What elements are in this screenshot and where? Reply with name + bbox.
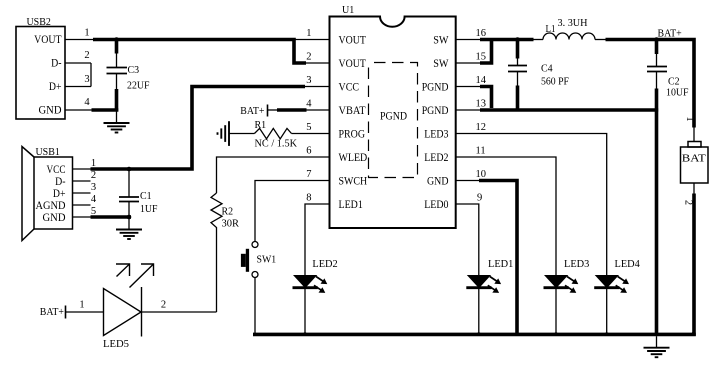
svg-text:6: 6 — [306, 146, 311, 157]
svg-text:GND: GND — [43, 212, 66, 224]
capacitor C4 — [508, 65, 527, 67]
svg-text:L1: L1 — [546, 24, 556, 35]
svg-text:1: 1 — [79, 300, 84, 311]
svg-text:2: 2 — [161, 300, 166, 311]
capacitor C2 — [647, 66, 667, 68]
svg-text:2: 2 — [683, 200, 694, 205]
wire C4 top thin — [517, 59, 519, 66]
resistor R1 — [254, 128, 291, 138]
LED5 light arrow 1 head — [116, 264, 130, 276]
USB1 pin 2 stub — [73, 180, 91, 182]
USB2 pin 3 stub — [65, 86, 91, 88]
svg-text:2: 2 — [84, 50, 89, 61]
svg-text:1: 1 — [306, 28, 311, 39]
svg-text:4: 4 — [306, 99, 312, 110]
LED5 cathode bar — [141, 287, 143, 337]
wire C2 top thin — [656, 54, 658, 67]
BAT+ terminal bar at LED5 — [65, 306, 67, 319]
svg-text:USB2: USB2 — [27, 16, 51, 28]
svg-text:BAT+: BAT+ — [658, 28, 682, 40]
svg-text:LED1: LED1 — [488, 258, 513, 270]
wire R1 to U1 pin 5 — [292, 133, 331, 135]
wire into U1 pin 3 — [305, 86, 330, 88]
svg-text:C4: C4 — [541, 63, 553, 75]
connector USB1 flap — [22, 147, 34, 241]
svg-text:LED3: LED3 — [564, 258, 590, 270]
wire C2 bottom thin — [656, 72, 658, 89]
svg-text:3. 3UH: 3. 3UH — [558, 17, 588, 29]
svg-text:16: 16 — [476, 28, 487, 39]
junction dot C4 top — [515, 37, 520, 42]
wire into U1 pin 2 — [306, 62, 330, 64]
svg-text:22UF: 22UF — [127, 80, 150, 92]
svg-text:5: 5 — [306, 122, 311, 133]
connector USB1 body — [34, 157, 73, 229]
svg-text:PGND: PGND — [422, 105, 449, 117]
svg-text:4: 4 — [91, 194, 97, 205]
ground below C3 — [104, 112, 130, 133]
svg-text:D-: D- — [55, 176, 66, 188]
svg-text:AGND: AGND — [36, 200, 66, 212]
svg-text:10: 10 — [476, 169, 487, 180]
wire L1 lead-in thin — [534, 39, 544, 41]
LED5 light arrow 2 head — [141, 264, 154, 276]
wire SW1 to ground bus — [254, 278, 256, 335]
svg-text:VCC: VCC — [339, 82, 360, 94]
wire C2 bottom to ground bus (thick) — [655, 89, 659, 335]
svg-text:560 PF: 560 PF — [541, 76, 569, 88]
wire U1 pin8 to LED2 — [305, 204, 330, 275]
svg-text:R2: R2 — [222, 206, 234, 218]
LED LED1 — [466, 275, 501, 293]
svg-text:3: 3 — [84, 74, 89, 85]
wire C2 top thick — [655, 40, 659, 55]
wire U1 pin15 up to pin16 net (thick) — [480, 41, 492, 63]
svg-text:WLED: WLED — [339, 152, 368, 164]
svg-text:SW1: SW1 — [257, 254, 277, 266]
svg-text:13: 13 — [476, 99, 487, 110]
wire U1 pin9 LED0 to LED1 — [456, 204, 479, 275]
wire U1 pin16 SW thick — [480, 38, 534, 42]
svg-text:BAT: BAT — [682, 153, 706, 165]
USB1 pin 1 stub — [73, 168, 91, 170]
svg-text:D+: D+ — [49, 81, 62, 93]
junction dot C2 top — [654, 37, 659, 42]
wire into U1 pin 1 — [294, 39, 330, 41]
BAT+ terminal bar — [267, 105, 269, 117]
LED LED5 triangle — [104, 289, 142, 336]
svg-text:LED3: LED3 — [424, 129, 449, 141]
svg-text:BAT+: BAT+ — [40, 306, 64, 318]
wire C4 bottom thin — [517, 72, 519, 86]
svg-text:D-: D- — [51, 58, 62, 70]
svg-text:SW: SW — [433, 58, 449, 70]
svg-text:LED4: LED4 — [615, 258, 641, 270]
wire LED4 to bus — [606, 288, 608, 334]
svg-text:VOUT: VOUT — [339, 58, 366, 70]
ground (rotated) at R1 — [218, 121, 230, 146]
USB2 pin 1 stub — [65, 39, 93, 41]
wire U1 pin12 to LED4 — [456, 134, 607, 276]
LED LED3 — [544, 275, 579, 293]
svg-text:1: 1 — [684, 116, 695, 121]
USB1 pin 4 stub — [73, 204, 91, 206]
svg-text:12: 12 — [476, 122, 487, 133]
svg-text:8: 8 — [306, 193, 311, 204]
svg-text:SWCH: SWCH — [339, 176, 368, 188]
svg-text:SW: SW — [433, 35, 449, 47]
USB2 pin 4 stub — [65, 109, 92, 111]
svg-text:30R: 30R — [222, 218, 240, 230]
USB1 pin 3 stub — [73, 192, 91, 194]
svg-text:LED2: LED2 — [312, 258, 337, 270]
svg-text:LED0: LED0 — [424, 199, 449, 211]
capacitor C3 — [107, 67, 128, 69]
svg-text:PGND: PGND — [380, 111, 407, 123]
svg-text:BAT+: BAT+ — [240, 105, 264, 117]
svg-text:LED1: LED1 — [339, 199, 363, 211]
switch SW1 actuator nub — [241, 254, 246, 267]
wire battery bottom thin — [693, 183, 695, 194]
svg-text:7: 7 — [306, 169, 311, 180]
LED5 light arrow 1 shaft — [117, 265, 130, 277]
wire U1 pin11 to LED3 — [456, 157, 556, 275]
svg-text:C1: C1 — [140, 190, 152, 202]
wire BAT+ to pin4 thick — [277, 108, 307, 112]
wire U1 pin6 WLED to R2 — [217, 157, 331, 193]
switch SW1 actuator bar — [246, 249, 249, 272]
junction dot at C3 top — [114, 37, 119, 42]
dashed internal PGND region — [369, 63, 418, 178]
junction dot LED4 bus — [605, 332, 609, 336]
wire R2 to LED5 cathode node — [216, 229, 218, 312]
wire U1 pin7 SWCH to SW1 — [255, 181, 330, 242]
USB2 pin 2 stub — [65, 62, 91, 64]
capacitor C1 — [119, 196, 139, 198]
svg-text:GND: GND — [427, 176, 449, 188]
svg-text:GND: GND — [39, 105, 62, 117]
junction dot LED1 bus — [477, 332, 481, 336]
svg-text:3: 3 — [306, 75, 311, 86]
svg-text:USB1: USB1 — [36, 146, 60, 158]
junction dot LED2 bus — [303, 332, 307, 336]
wire to BAT+ corner (thick) — [606, 40, 695, 128]
IC U1 outline with notch — [330, 17, 456, 229]
svg-text:LED2: LED2 — [424, 152, 449, 164]
wire LED3 to bus — [555, 288, 557, 334]
svg-text:14: 14 — [476, 75, 487, 86]
svg-text:2: 2 — [306, 52, 311, 63]
wire U1 pin15 SW stub thin — [456, 62, 480, 64]
wire U1 pin14 stub thin — [456, 86, 480, 88]
wire into U1 pin 4 — [307, 109, 331, 111]
wire USB1 VCC to U1 pin3 (thick) — [91, 87, 306, 170]
battery BAT cap nub — [688, 142, 701, 148]
svg-text:LED5: LED5 — [103, 338, 129, 350]
resistor R2 — [211, 193, 222, 229]
wire battery negative to bus (thick) — [692, 194, 694, 335]
wire USB2 GND thick — [92, 108, 119, 112]
LED LED4 — [594, 275, 629, 293]
wire U1 pin10 GND stub thin — [456, 180, 479, 182]
LED5 light arrow 2 shaft — [130, 265, 154, 288]
switch SW1 bottom terminal — [252, 272, 258, 278]
wire C1 bottom — [128, 202, 130, 218]
wire ground to R1 — [229, 133, 254, 135]
ground below C1 — [116, 218, 142, 239]
LED LED2 — [293, 275, 328, 293]
wire U1 pin14 down to pin13 net (thick) — [480, 87, 492, 109]
wire L1 out thin — [595, 39, 606, 41]
switch SW1 top terminal — [252, 242, 258, 248]
wire C3 bottom thick — [115, 89, 119, 112]
wire C4 bottom thick — [516, 86, 520, 112]
svg-text:C3: C3 — [128, 64, 140, 76]
wire shorting D- to D+ — [90, 63, 92, 87]
svg-text:VBAT: VBAT — [339, 105, 366, 117]
wire U1 pin16 SW stub thin — [456, 39, 480, 41]
wire USB1 GND thick — [91, 215, 132, 219]
wire U1 pin13 stub thin — [456, 109, 480, 111]
svg-text:1: 1 — [84, 28, 89, 39]
svg-text:VCC: VCC — [47, 164, 66, 176]
junction dot LED3 bus — [554, 332, 558, 336]
wire C4 top thick — [516, 40, 520, 59]
svg-text:VOUT: VOUT — [34, 34, 61, 46]
svg-text:1UF: 1UF — [140, 203, 158, 215]
svg-text:4: 4 — [84, 97, 90, 108]
wire U1 pin13 PGND net (thick) — [480, 108, 658, 112]
ground bus (thick) — [253, 333, 696, 337]
wire C3 top thin — [116, 54, 118, 68]
svg-text:15: 15 — [476, 52, 487, 63]
svg-text:R1: R1 — [255, 119, 267, 131]
wire C3 bottom thin — [116, 74, 118, 90]
wire LED2 to bus — [304, 288, 306, 334]
connector USB2 — [16, 27, 65, 120]
battery BAT body — [681, 147, 709, 183]
wire C1 top — [128, 169, 130, 197]
wire U1 pin10 GND to bus (thick) — [479, 181, 517, 335]
svg-text:PGND: PGND — [422, 82, 449, 94]
svg-text:PROG: PROG — [339, 129, 366, 141]
wire C3 top (thick stub) — [115, 40, 119, 54]
svg-text:2: 2 — [91, 170, 96, 181]
svg-text:U1: U1 — [342, 4, 354, 16]
svg-text:9: 9 — [477, 193, 482, 204]
ground symbol at bus — [644, 336, 670, 357]
svg-text:11: 11 — [476, 146, 486, 157]
wire battery top thin — [693, 128, 695, 142]
junction dot at USB1 GND — [127, 215, 132, 220]
wire VOUT bus to U1 pin1/pin2 (thick) — [93, 40, 306, 64]
inductor L1 — [543, 33, 595, 40]
USB1 pin 5 stub — [73, 216, 91, 218]
svg-text:D+: D+ — [53, 188, 66, 200]
wire LED5 cathode to R2 node — [142, 311, 217, 313]
svg-text:NC / 1.5K: NC / 1.5K — [255, 138, 298, 150]
svg-text:3: 3 — [91, 182, 96, 193]
wire LED1 to bus — [478, 288, 480, 334]
junction dot at C1 top — [127, 167, 132, 172]
wire BAT+ to LED5 anode — [66, 311, 104, 313]
svg-text:VOUT: VOUT — [339, 35, 366, 47]
wire BAT+ to pin4 thin — [268, 109, 278, 111]
svg-text:10UF: 10UF — [666, 87, 689, 99]
